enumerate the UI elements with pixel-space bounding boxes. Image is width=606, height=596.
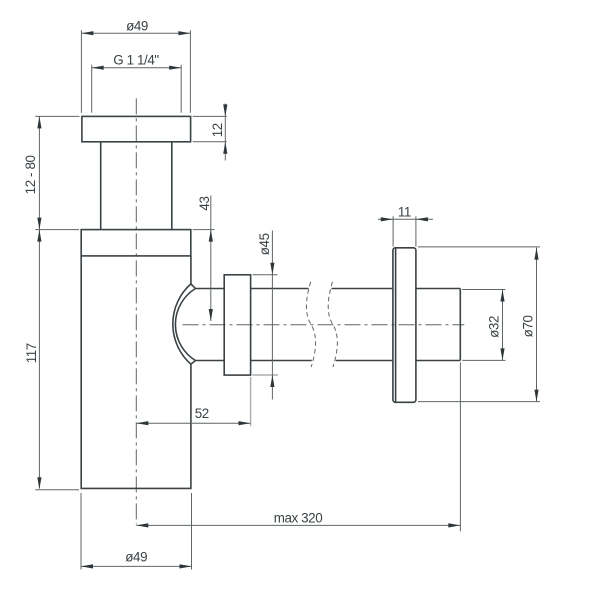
dim ø49 top: left arrow	[81, 31, 93, 35]
svg-text:G 1 1/4": G 1 1/4"	[113, 53, 159, 68]
dim 117: bottom arrow	[37, 477, 41, 489]
dim max 320: extension line at pipe end	[459, 363, 461, 532]
dim 12-80 left: extension lines	[35, 116, 79, 229]
pipe break curve 2	[328, 282, 337, 367]
dim 43: top arrow	[209, 230, 213, 242]
dim 117: dimension line	[38, 230, 40, 489]
vertical center line (body axis)	[135, 98, 137, 524]
dim max 320: left arrow	[136, 523, 148, 527]
body top nut	[81, 230, 191, 256]
dim G 1 1/4: extension lines	[92, 65, 182, 113]
dim 117: top arrow	[37, 230, 41, 242]
dim 11: dimension line	[378, 218, 433, 220]
dim ø32: bottom arrow	[500, 348, 504, 360]
svg-text:117: 117	[24, 343, 39, 363]
ball joint crescent	[173, 284, 196, 364]
dim 11: right arrow	[416, 217, 428, 221]
dim ø70: dimension line	[536, 248, 538, 402]
svg-text:43: 43	[197, 196, 212, 210]
svg-text:12: 12	[210, 123, 225, 137]
outlet pipe segment at body	[195, 289, 224, 361]
svg-text:ø49: ø49	[126, 19, 148, 34]
dim ø49 bottom: extension lines	[81, 493, 192, 570]
wall rosette	[393, 248, 416, 402]
outlet pipe end segment	[416, 289, 460, 361]
svg-text:ø49: ø49	[125, 549, 147, 564]
outlet pipe middle segment (to break)	[251, 289, 312, 361]
trap body outline	[81, 256, 191, 489]
dim ø32: extension lines	[462, 290, 505, 361]
slip nut on outlet pipe	[224, 275, 250, 375]
dim 12-80: top arrow	[37, 116, 41, 128]
dim G 1 1/4: right arrow	[169, 66, 181, 70]
dim 11: left arrow	[381, 217, 393, 221]
dim 12-80: dimension line	[38, 116, 40, 229]
svg-text:max 320: max 320	[274, 510, 323, 525]
dim 12 right: extension lines	[193, 116, 227, 141]
svg-text:11: 11	[398, 205, 411, 220]
tailpiece tube left wall	[100, 142, 102, 230]
dim ø32: top arrow	[500, 290, 504, 302]
pipe break curve 1	[306, 282, 315, 367]
dim ø70: bottom arrow	[534, 390, 538, 402]
dim 52: dimension line	[136, 422, 250, 424]
svg-text:ø70: ø70	[521, 315, 536, 337]
dim 12 right: bottom arrow	[223, 142, 227, 154]
dim 43: bottom arrow	[209, 309, 213, 321]
dim ø49 top: dimension line	[81, 32, 190, 34]
dim 43: dimension line	[210, 196, 212, 322]
pipe end cap	[459, 289, 461, 361]
dim ø49 top: extension lines	[81, 30, 190, 113]
rosette left inner edge	[395, 248, 397, 401]
dim G 1 1/4: dimension line	[92, 67, 182, 69]
dim 52: extension line from slip nut	[250, 377, 252, 426]
dim G 1 1/4: left arrow	[92, 66, 104, 70]
dim ø45: dimension line	[271, 231, 273, 400]
dim ø45: extension line nut bottom	[253, 374, 278, 376]
outlet pipe segment (break to rosette)	[332, 289, 393, 361]
dim ø70: extension line rosette top	[418, 246, 540, 248]
dim max 320: right arrow	[448, 523, 460, 527]
dim 43: extension line at nut top right	[193, 229, 215, 231]
dim ø45: extension line nut top	[253, 274, 278, 276]
horizontal center line (outlet axis)	[183, 324, 465, 326]
dim ø70: top arrow	[534, 248, 538, 260]
dim max 320: dimension line	[136, 524, 460, 526]
tailpiece tube right wall	[171, 142, 173, 230]
dim 52: left arrow	[136, 421, 148, 425]
dim ø45: bottom arrow	[270, 375, 274, 387]
dim ø49 bottom: dimension line	[81, 565, 192, 567]
svg-text:ø45: ø45	[257, 233, 272, 255]
dim 12 right: top arrow	[223, 104, 227, 116]
dim 12 right: dimension line	[224, 104, 226, 161]
top flange (cap)	[82, 116, 191, 141]
dim ø49 bottom: right arrow	[180, 564, 192, 568]
dim 52: right arrow	[239, 421, 251, 425]
dim ø70: extension line rosette bottom	[418, 401, 540, 403]
svg-text:ø32: ø32	[487, 316, 502, 338]
dim 117: bottom extension line	[35, 489, 79, 491]
svg-text:12 - 80: 12 - 80	[23, 155, 38, 194]
dim ø32: dimension line	[502, 290, 504, 361]
dim 11: extension lines	[393, 216, 416, 246]
svg-text:52: 52	[195, 406, 209, 421]
dim ø49 top: right arrow	[178, 31, 190, 35]
dim 12-80: bottom arrow	[37, 218, 41, 230]
dim ø49 bottom: left arrow	[81, 564, 93, 568]
dim ø45: top arrow	[270, 263, 274, 275]
